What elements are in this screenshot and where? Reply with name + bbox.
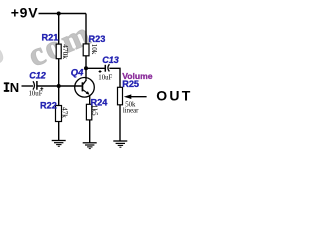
svg-text:Volume: Volume — [122, 71, 153, 81]
svg-text:C13: C13 — [102, 55, 119, 65]
svg-text:10uF: 10uF — [29, 90, 43, 97]
resistor R24 — [86, 104, 91, 120]
wire IN to C12 — [22, 85, 34, 87]
svg-text:470k: 470k — [61, 44, 70, 59]
wire +9V supply rail — [39, 13, 87, 15]
wire R25 bottom lead — [119, 105, 121, 141]
svg-text:10k: 10k — [90, 44, 98, 55]
wire C13 to R25 — [109, 68, 120, 87]
resistor R21 — [56, 44, 61, 59]
wire collector lead — [85, 68, 87, 80]
svg-text:47k: 47k — [61, 107, 69, 118]
ground below R22 — [52, 141, 66, 147]
resistor R23 — [83, 44, 89, 56]
node base junction — [57, 84, 61, 88]
svg-text:C12: C12 — [29, 71, 46, 81]
potentiometer R25 — [118, 87, 123, 105]
wire collector junction to C13 — [86, 67, 105, 69]
svg-text:R23: R23 — [89, 34, 106, 44]
wire R23 bottom lead — [85, 56, 87, 69]
wiper arrow to OUT — [124, 94, 147, 99]
svg-text:N: N — [10, 80, 19, 95]
svg-text:o: o — [0, 33, 8, 72]
wire emitter lead — [89, 95, 91, 104]
transistor Q4 — [75, 78, 95, 98]
polarity plus C12 — [40, 87, 43, 90]
wire R21 bottom lead — [58, 59, 60, 86]
svg-text:10uF: 10uF — [98, 75, 112, 82]
resistor R22 — [56, 106, 62, 122]
node supply junction — [57, 12, 61, 16]
wire C12 to base — [37, 85, 82, 87]
svg-text:R22: R22 — [40, 100, 57, 110]
ground below R25 — [113, 141, 127, 147]
polarity plus C13 — [99, 70, 102, 73]
node collector junction — [84, 66, 88, 70]
port label IN — [4, 80, 19, 95]
svg-text:R21: R21 — [42, 33, 59, 43]
svg-text:linear: linear — [123, 107, 139, 114]
capacitor C12 — [33, 81, 37, 90]
wire R24 bottom lead — [89, 120, 91, 143]
svg-text:1k5: 1k5 — [90, 105, 98, 116]
svg-text:OUT: OUT — [156, 88, 192, 104]
wire R22 bottom lead — [58, 122, 60, 141]
wire R22 top lead — [58, 86, 60, 106]
svg-text:+9V: +9V — [11, 5, 39, 21]
capacitor C13 — [105, 64, 109, 72]
wire R23 top lead — [85, 14, 87, 44]
ground below R24 — [83, 143, 97, 149]
wire R21 top lead — [58, 14, 60, 45]
svg-text:Q4: Q4 — [71, 67, 84, 78]
